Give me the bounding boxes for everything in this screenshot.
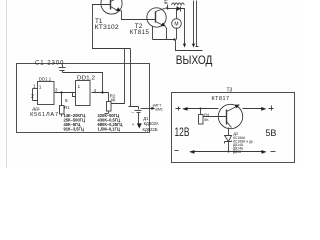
junction node R4: [200, 108, 202, 110]
wire to D1 node: [129, 49, 139, 107]
diode VD top: [177, 6, 181, 11]
svg-text:2: 2: [31, 94, 34, 100]
junction node feedback: [101, 91, 103, 93]
wire emitter bus: [153, 27, 176, 40]
scan fold line: [6, 0, 8, 168]
resistor R4: [199, 109, 204, 125]
fuse squiggle: [172, 3, 185, 5]
pin 2 stub: [33, 89, 38, 101]
value table R3 right: [98, 113, 123, 132]
wire T2 collector up: [167, 8, 169, 9]
label D2: [233, 131, 253, 154]
svg-text:5В: 5В: [265, 128, 276, 138]
transistor T2: [147, 8, 168, 28]
svg-text:DD1.2: DD1.2: [77, 75, 95, 81]
svg-text:12В: 12В: [175, 125, 190, 139]
motor M1: [172, 19, 182, 29]
gate DD1.1: [38, 82, 55, 105]
battery E terminal: [167, 5, 169, 9]
wire minus rail: [191, 151, 262, 153]
junction node E/T2: [167, 8, 169, 10]
input arrow minus: [189, 150, 194, 154]
wire T1 emitter to T2 base: [122, 11, 156, 20]
svg-text:R4: R4: [204, 113, 209, 117]
wire gate2 out: [92, 92, 109, 94]
svg-text:КД522Б: КД522Б: [143, 127, 158, 132]
value table R3 left: [64, 113, 86, 132]
wire T1 base: [93, 5, 131, 49]
output bracket: [176, 40, 203, 51]
svg-text:+: +: [132, 122, 135, 127]
svg-text:КД503А: КД503А: [144, 121, 159, 126]
svg-text:DD1.1: DD1.1: [39, 76, 52, 81]
svg-text:С1 2300: С1 2300: [35, 61, 64, 67]
node MG7 label: [153, 104, 163, 112]
svg-text:ВМ1: ВМ1: [155, 108, 163, 112]
output arrow plus: [261, 107, 266, 111]
output arrow minus: [261, 150, 266, 154]
wire C1 feedback: [63, 73, 103, 93]
svg-text:КТ817: КТ817: [212, 96, 230, 102]
svg-text:Т3: Т3: [227, 87, 233, 93]
label T2: [130, 23, 150, 36]
output arrow 2: [192, 44, 195, 48]
wire R4 to T3 base: [203, 116, 227, 118]
label T3: [212, 87, 233, 102]
svg-text:Д808: Д808: [233, 150, 241, 154]
node arrow to MG7: [141, 107, 156, 110]
svg-text:1,5М–0,1ГЦ: 1,5М–0,1ГЦ: [98, 126, 120, 131]
wire plus rail left: [184, 108, 219, 110]
wire E to diode: [168, 8, 177, 10]
svg-text:М: М: [174, 22, 178, 28]
svg-text:6: 6: [65, 98, 68, 104]
label D1: [143, 116, 159, 132]
rail 3: [196, 1, 199, 47]
svg-text:1: 1: [33, 84, 36, 90]
output arrow 1: [183, 44, 186, 48]
svg-text:Е: Е: [164, 0, 168, 6]
diode D1: [132, 113, 142, 129]
zener diode D2: [225, 136, 232, 152]
wire diode to rail: [181, 9, 185, 45]
label R2: [110, 94, 116, 103]
svg-text:Т2: Т2: [135, 23, 143, 30]
wire R2 to T1 base net: [112, 49, 125, 104]
plus sign left: [176, 107, 181, 111]
minus sign left: [175, 150, 179, 152]
wire plus rail right: [243, 108, 263, 110]
plus sign right: [269, 106, 274, 111]
junction node zener/minus rail: [228, 151, 230, 153]
wire T3 emitter down: [228, 128, 230, 136]
svg-text:КТ815: КТ815: [130, 30, 150, 36]
capacitor C1: [59, 65, 66, 73]
junction node motor/bus: [173, 38, 175, 40]
pin 1 stub: [33, 88, 38, 90]
svg-text:Д1: Д1: [143, 116, 149, 121]
svg-text:К561ЛА7: К561ЛА7: [30, 112, 58, 118]
svg-text:КТ3102: КТ3102: [95, 24, 119, 31]
wire motor bottom: [176, 28, 178, 40]
capacitor C2: [132, 107, 142, 115]
resistor R1: [60, 93, 65, 117]
transistor T3: [218, 104, 242, 128]
svg-text:1: 1: [78, 84, 81, 90]
svg-text:ДД1: ДД1: [32, 106, 40, 111]
svg-text:ВЫХОД: ВЫХОД: [176, 55, 213, 67]
svg-text:91К–3,5ГЦ: 91К–3,5ГЦ: [64, 126, 84, 131]
junction node R1: [60, 91, 62, 93]
svg-text:1: 1: [39, 84, 42, 90]
wire gate1 out: [55, 92, 76, 94]
minus sign right: [271, 151, 276, 153]
transistor T1: [101, 0, 122, 14]
svg-text:4К: 4К: [110, 97, 115, 102]
label T1: [95, 18, 119, 31]
pin 6 stub: [73, 93, 76, 97]
gate DD1.2: [76, 81, 91, 106]
svg-text:R1: R1: [64, 105, 70, 110]
wire motor top: [176, 9, 178, 19]
box DD1 multivibrator: [17, 64, 150, 133]
label R4: [204, 113, 209, 122]
input arrow plus: [182, 107, 187, 111]
box voltage regulator: [172, 93, 295, 163]
resistor R2: [105, 93, 112, 114]
rail 2: [193, 1, 195, 45]
